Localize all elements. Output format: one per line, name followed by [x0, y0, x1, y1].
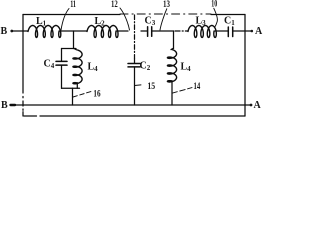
svg-text:13: 13 [163, 0, 170, 10]
svg-text:16: 16 [93, 90, 100, 100]
svg-text:A: A [254, 100, 262, 111]
terminal A (bottom) dot [250, 104, 253, 107]
inductor L4 top hook [74, 48, 77, 50]
terminal B (top) dot [10, 30, 13, 33]
leader dashes 16 [73, 92, 91, 98]
enclosure box top edge (solid right part) [211, 14, 245, 16]
capacitor C2 bottom lead [134, 67, 136, 105]
capacitor C4 top lead [61, 49, 63, 62]
shunt tank top bar [62, 48, 77, 50]
svg-text:10: 10 [211, 0, 217, 10]
leader dashes 14 [172, 88, 192, 94]
inductor L5 top hook [171, 48, 174, 49]
svg-text:12: 12 [111, 0, 118, 10]
enclosure box top edge (dash-dot middle) [120, 13, 211, 15]
inductor L4 (tank coil) [73, 50, 82, 84]
wire L3 to C1 [214, 30, 228, 32]
shunt tank stem from top wire [73, 31, 75, 49]
leader line 13 [160, 9, 167, 30]
svg-text:11: 11 [70, 0, 76, 10]
inductor L4 bottom lead [76, 83, 78, 89]
capacitor C4 bottom lead [61, 65, 63, 88]
leader line 11 [61, 9, 69, 31]
svg-text:14: 14 [194, 82, 201, 92]
svg-text:15: 15 [147, 82, 155, 92]
svg-text:B: B [1, 100, 8, 111]
wire node to L3 (dash-dot) [175, 30, 188, 32]
leader line 10 [214, 8, 218, 27]
shunt tank bottom stem [72, 88, 74, 105]
enclosure box left edge lower dash-dot [22, 97, 24, 98]
leader line 12 [120, 8, 130, 30]
svg-text:A: A [255, 26, 263, 37]
svg-text:B: B [1, 26, 8, 37]
circuit schematic: band-pass filter ladder [0, 0, 264, 120]
terminal B (bottom) dot [11, 104, 16, 106]
enclosure box bottom edge [40, 115, 245, 117]
wire C3 to node of shunt coil [152, 30, 173, 32]
capacitor C1 plates [227, 27, 229, 37]
leader dashes 15 [135, 84, 144, 87]
inductor L1 [28, 26, 61, 38]
enclosure box right edge [244, 15, 246, 117]
enclosure box top edge (solid left part) [23, 14, 120, 16]
enclosure box bottom edge left dash [24, 115, 37, 117]
capacitor C4 plates [56, 60, 67, 62]
inductor L2 [87, 26, 118, 38]
shunt tank bottom bar [62, 87, 80, 89]
enclosure box left edge [22, 15, 24, 94]
wire L1 to L2 with node of shunt tank [59, 30, 87, 32]
wire C1 to terminal A [233, 30, 251, 32]
capacitor C2 top lead [134, 59, 136, 64]
inductor L5 bottom lead [171, 81, 173, 105]
partition wall 12 (dash-dot) [134, 15, 136, 59]
shunt coil stem from top wire [173, 31, 175, 49]
terminal A (top) dot [251, 30, 254, 33]
inductor L3 [188, 26, 216, 38]
bottom wire B to A [13, 104, 250, 106]
wire L2 to wall [116, 30, 128, 32]
inductor L5 (shunt coil) [167, 50, 176, 83]
wire B to L1 [13, 30, 29, 32]
capacitor C2 plates [128, 63, 140, 65]
capacitor C3 plates [147, 27, 149, 37]
wire wall to C3 [141, 30, 147, 32]
